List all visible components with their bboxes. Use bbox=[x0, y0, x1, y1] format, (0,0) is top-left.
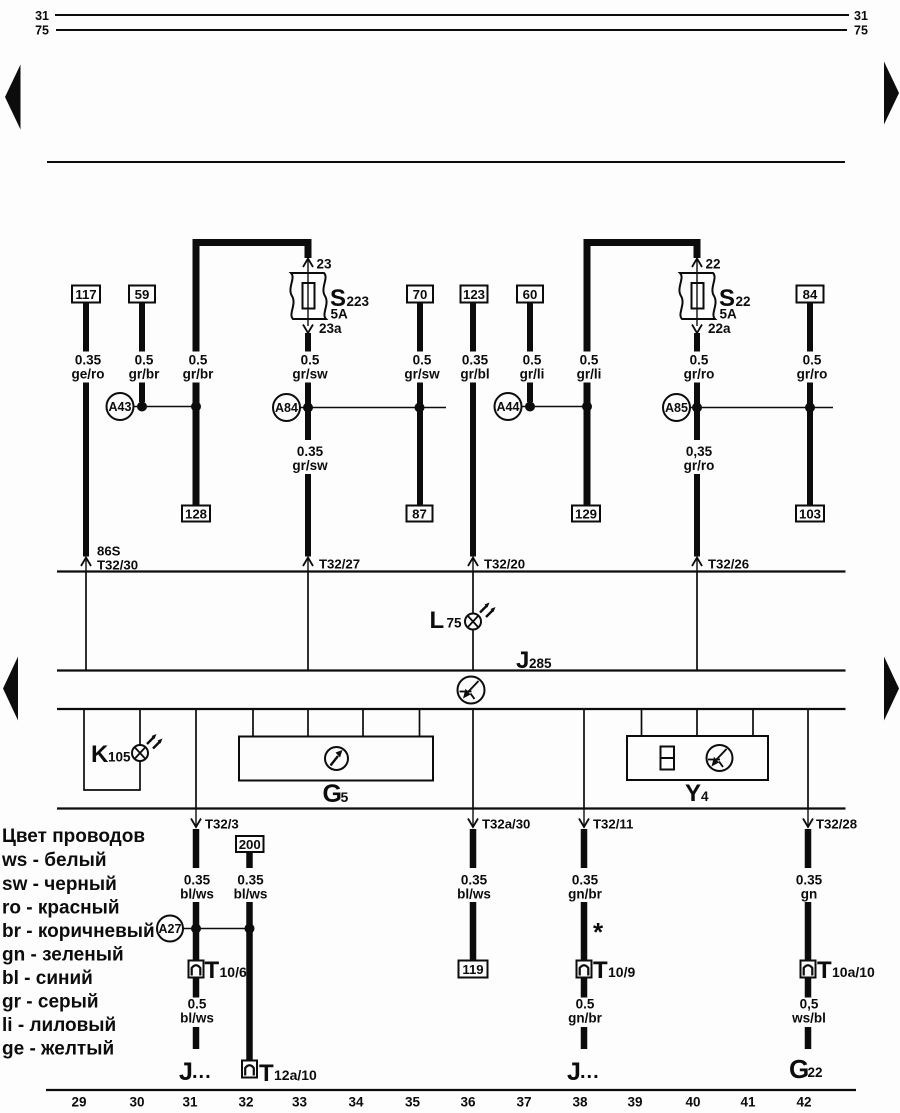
svg-text:T32/3: T32/3 bbox=[205, 817, 239, 832]
junction 84/A85 bbox=[805, 403, 815, 413]
wire T32/20 to L75 bbox=[472, 572, 474, 614]
wire gn column 42 middle bbox=[805, 902, 812, 961]
svg-text:bl/ws: bl/ws bbox=[180, 1011, 214, 1026]
svg-text:gr/ro: gr/ro bbox=[797, 367, 828, 382]
lamp K105 designator bbox=[91, 741, 131, 768]
svg-text:0,5: 0,5 bbox=[800, 997, 819, 1012]
svg-text:35: 35 bbox=[405, 1095, 421, 1110]
wire to J (31) bbox=[193, 1027, 200, 1049]
wire Y4 stub 3 bbox=[752, 709, 754, 736]
svg-text:0.5: 0.5 bbox=[690, 353, 709, 368]
svg-text:0.35: 0.35 bbox=[297, 444, 324, 459]
svg-text:...: ... bbox=[580, 1061, 600, 1083]
svg-text:0.35: 0.35 bbox=[184, 873, 211, 888]
svg-text:gr/ro: gr/ro bbox=[684, 458, 715, 473]
pin arrow T32/27 bbox=[303, 557, 360, 572]
wire gr/sw to T32/27 bbox=[305, 474, 311, 557]
svg-text:A44: A44 bbox=[497, 400, 520, 414]
wire label 0.5 gr/br (59) bbox=[129, 353, 160, 382]
svg-text:0.35: 0.35 bbox=[461, 873, 488, 888]
svg-text:285: 285 bbox=[529, 656, 552, 671]
wire label 0.5 gn/br bbox=[568, 997, 602, 1026]
wire top bar left (gr/br feed) bbox=[196, 243, 308, 352]
svg-text:ws/bl: ws/bl bbox=[791, 1011, 826, 1026]
wire 84 lower to 103 bbox=[807, 383, 813, 506]
wire label 0.35 ge/ro bbox=[71, 353, 104, 382]
svg-text:123: 123 bbox=[463, 287, 485, 302]
wire 59 upper bbox=[139, 303, 145, 352]
svg-text:86S: 86S bbox=[97, 544, 121, 559]
wire G5 stub 1 bbox=[252, 709, 254, 737]
wire 123 lower to T32/20 bbox=[470, 383, 476, 557]
svg-text:60: 60 bbox=[523, 287, 538, 302]
svg-text:gr/li: gr/li bbox=[577, 367, 602, 382]
svg-text:Цвет проводов: Цвет проводов bbox=[2, 826, 145, 847]
svg-text:ge - желтый: ge - желтый bbox=[2, 1039, 114, 1060]
junction 60/A44 bbox=[525, 402, 535, 412]
svg-text:23a: 23a bbox=[319, 321, 342, 336]
wire J285 to T32/11 bbox=[583, 709, 585, 808]
bus connector strip T32 bbox=[57, 570, 846, 572]
pin arrow T32/11 bbox=[579, 809, 633, 832]
wire T10/9 lower stub bbox=[581, 978, 588, 998]
wire A44 link bbox=[522, 406, 588, 408]
svg-text:T32/11: T32/11 bbox=[593, 817, 633, 832]
svg-text:0.35: 0.35 bbox=[462, 353, 489, 368]
svg-text:5: 5 bbox=[341, 789, 349, 805]
terminal 200 bbox=[236, 836, 264, 852]
svg-text:22: 22 bbox=[808, 1065, 823, 1080]
fuse S223 designator bbox=[330, 285, 370, 312]
wire A43 link bbox=[134, 406, 197, 408]
svg-text:200: 200 bbox=[239, 837, 261, 852]
wire 59 lower bbox=[139, 383, 145, 403]
svg-text:T32/20: T32/20 bbox=[484, 557, 525, 572]
svg-text:G: G bbox=[323, 780, 342, 808]
svg-text:T: T bbox=[205, 957, 220, 984]
svg-text:29: 29 bbox=[71, 1095, 86, 1110]
bus lower rail bbox=[57, 807, 846, 809]
junction 59/A43 bbox=[137, 402, 147, 412]
svg-text:gr/sw: gr/sw bbox=[404, 367, 440, 382]
svg-text:T32/30: T32/30 bbox=[97, 558, 138, 573]
svg-text:30: 30 bbox=[129, 1095, 144, 1110]
wire T32/26 to J285 bbox=[696, 572, 698, 672]
svg-text:bl - синий: bl - синий bbox=[2, 968, 93, 989]
lamp K105 bbox=[132, 734, 163, 761]
pin arrow T32a/30 bbox=[468, 809, 530, 832]
wire gn column 42 upper bbox=[805, 829, 812, 868]
track numbers bbox=[71, 1095, 811, 1110]
svg-text:75: 75 bbox=[35, 24, 49, 38]
svg-text:22: 22 bbox=[736, 294, 751, 309]
wire T10/6 lower stub bbox=[193, 978, 200, 998]
designator J... (38) bbox=[567, 1058, 600, 1086]
svg-text:4: 4 bbox=[701, 789, 709, 804]
sender G22 designator bbox=[789, 1054, 823, 1084]
svg-text:37: 37 bbox=[516, 1095, 531, 1110]
wire label 0.5 gr/sw (fuse S223) bbox=[292, 353, 328, 382]
svg-text:129: 129 bbox=[575, 507, 597, 522]
wire bl/ws column 36 upper bbox=[470, 829, 477, 868]
svg-text:40: 40 bbox=[685, 1095, 700, 1110]
wire label 0.5 gr/ro (fuse S22) bbox=[684, 353, 715, 382]
svg-text:gr/sw: gr/sw bbox=[292, 367, 328, 382]
wire T32/30 to J285 bbox=[85, 572, 87, 672]
connector T10/9 bbox=[577, 957, 636, 984]
connector A27 bbox=[157, 916, 183, 942]
svg-text:38: 38 bbox=[572, 1095, 588, 1110]
svg-text:J: J bbox=[179, 1058, 193, 1086]
control unit J285 instrument cluster bbox=[57, 671, 846, 710]
svg-text:0.35: 0.35 bbox=[572, 873, 599, 888]
terminal 129 bbox=[572, 506, 600, 522]
wire top bar right (gr/li feed) bbox=[587, 243, 697, 352]
svg-text:gn/br: gn/br bbox=[568, 887, 602, 902]
wire G5 stub 4 bbox=[419, 709, 421, 737]
wire label 0,5 ws/bl bbox=[791, 997, 826, 1026]
wire fuse S223 output bbox=[305, 333, 311, 352]
wire gr/br to 128 bbox=[193, 383, 200, 506]
junction gr-br/A43 bbox=[191, 402, 201, 412]
svg-text:22: 22 bbox=[706, 257, 721, 272]
svg-text:bl/ws: bl/ws bbox=[457, 887, 491, 902]
svg-text:J: J bbox=[567, 1058, 581, 1086]
connector A43 bbox=[107, 393, 134, 420]
svg-text:gn/br: gn/br bbox=[568, 1011, 602, 1026]
svg-text:31: 31 bbox=[854, 9, 868, 23]
svg-text:0.35: 0.35 bbox=[237, 873, 264, 888]
svg-text:39: 39 bbox=[627, 1095, 642, 1110]
wire A84 link bbox=[300, 407, 446, 409]
svg-text:22a: 22a bbox=[708, 321, 731, 336]
pin arrow T32/30 bbox=[81, 544, 138, 573]
separator line bbox=[47, 161, 845, 163]
svg-text:12a/10: 12a/10 bbox=[274, 1067, 317, 1083]
wire gr/ro fuse to A85 bbox=[694, 383, 700, 441]
svg-text:gr/ro: gr/ro bbox=[684, 367, 715, 382]
svg-text:T32a/30: T32a/30 bbox=[482, 817, 530, 832]
connector T10/6 bbox=[189, 957, 247, 984]
svg-text:0.35: 0.35 bbox=[75, 353, 102, 368]
wire A85 link bbox=[690, 407, 833, 409]
fuse S223 pin 23a arrow bbox=[303, 319, 342, 336]
svg-text:0.5: 0.5 bbox=[301, 353, 320, 368]
svg-text:ge/ro: ge/ro bbox=[71, 367, 104, 382]
designator J... (31) bbox=[179, 1058, 212, 1086]
legend wire colours bbox=[1, 826, 155, 1060]
fuse S22 pin 22a arrow bbox=[692, 319, 731, 336]
svg-text:A27: A27 bbox=[159, 922, 182, 936]
terminal 70 bbox=[407, 286, 433, 303]
terminal 128 bbox=[182, 506, 210, 522]
connector A44 bbox=[495, 393, 522, 420]
terminal 87 bbox=[407, 506, 433, 522]
pin arrow T32/26 bbox=[692, 557, 749, 572]
svg-text:59: 59 bbox=[135, 287, 150, 302]
svg-text:T: T bbox=[817, 957, 832, 984]
wire label 0.35 bl/ws (36) bbox=[457, 873, 491, 902]
wire 70 upper bbox=[417, 303, 423, 352]
svg-text:bl/ws: bl/ws bbox=[180, 887, 214, 902]
svg-text:T32/27: T32/27 bbox=[319, 557, 360, 572]
wire 117 lower to T32/30 bbox=[83, 383, 89, 557]
wire 60 upper bbox=[527, 303, 533, 352]
wire label 0.5 gr/sw (70) bbox=[404, 353, 440, 382]
svg-text:103: 103 bbox=[799, 507, 821, 522]
wire J285 to T32/28 bbox=[807, 709, 809, 808]
clock Y4 bbox=[627, 736, 768, 780]
wire 123 upper bbox=[470, 303, 476, 352]
terminal 59 bbox=[129, 286, 155, 303]
svg-text:128: 128 bbox=[185, 507, 207, 522]
pin arrow T32/3 bbox=[191, 809, 239, 832]
svg-text:gr - серый: gr - серый bbox=[2, 992, 99, 1013]
wire T32/27 to J285 bbox=[307, 572, 309, 672]
fuse S223 bbox=[290, 273, 326, 319]
svg-text:0,35: 0,35 bbox=[686, 444, 713, 459]
wire label 0.5 bl/ws bbox=[180, 997, 214, 1026]
svg-text:41: 41 bbox=[740, 1095, 756, 1110]
junction gr-ro/A85 bbox=[692, 403, 702, 413]
svg-text:T: T bbox=[259, 1060, 274, 1087]
svg-text:...: ... bbox=[192, 1061, 212, 1083]
continuation arrow middle-left bbox=[3, 657, 18, 721]
svg-text:31: 31 bbox=[35, 9, 49, 23]
svg-text:10/9: 10/9 bbox=[608, 964, 635, 980]
svg-text:li - лиловый: li - лиловый bbox=[2, 1015, 116, 1036]
wire T10a/10 lower stub bbox=[805, 978, 812, 998]
svg-text:A85: A85 bbox=[665, 401, 688, 415]
wire rail 31 bbox=[55, 14, 849, 16]
wire label 0.35 gr/sw bbox=[292, 444, 328, 473]
wire 60 lower bbox=[527, 383, 533, 403]
continuation arrow middle-right bbox=[884, 657, 899, 721]
terminal 119 bbox=[459, 961, 488, 978]
wire gn/br column 38 middle bbox=[581, 902, 588, 961]
svg-text:0.5: 0.5 bbox=[189, 353, 208, 368]
wire bl/ws column 36 lower bbox=[470, 902, 477, 961]
fuse S22 designator bbox=[719, 285, 751, 312]
terminal 117 bbox=[72, 286, 100, 303]
svg-text:0.5: 0.5 bbox=[135, 353, 154, 368]
wire bl/ws column 32 lower bbox=[246, 902, 253, 1061]
wire Y4 stub 1 bbox=[641, 709, 643, 736]
wire label 0.5 gr/li (bar) bbox=[577, 353, 602, 382]
svg-text:10a/10: 10a/10 bbox=[832, 964, 875, 980]
svg-text:0.5: 0.5 bbox=[803, 353, 822, 368]
svg-text:23: 23 bbox=[317, 257, 333, 272]
wire 70 lower to 87 bbox=[417, 383, 423, 506]
wire label 0.5 gr/br (bar) bbox=[183, 353, 214, 382]
wire G5 stub 2 bbox=[307, 709, 309, 737]
continuation arrow top-right bbox=[884, 62, 899, 125]
svg-text:117: 117 bbox=[75, 287, 96, 302]
connector T10a/10 bbox=[801, 957, 876, 984]
svg-text:L: L bbox=[430, 607, 445, 634]
wire K105 branch bbox=[84, 709, 140, 790]
svg-text:87: 87 bbox=[412, 507, 427, 522]
svg-text:gn - зеленый: gn - зеленый bbox=[2, 945, 124, 966]
control unit J285 designator bbox=[516, 647, 552, 674]
svg-text:br - коричневый: br - коричневый bbox=[2, 921, 155, 942]
svg-text:A43: A43 bbox=[109, 400, 132, 414]
wire to G22 bbox=[805, 1027, 812, 1049]
junction 70/A84 bbox=[415, 403, 425, 413]
svg-text:70: 70 bbox=[413, 287, 428, 302]
svg-text:gr/li: gr/li bbox=[520, 367, 545, 382]
svg-text:0.5: 0.5 bbox=[413, 353, 432, 368]
gauge G5 designator bbox=[323, 780, 349, 808]
continuation arrow top-left bbox=[5, 65, 21, 130]
svg-text:K: K bbox=[91, 741, 109, 768]
svg-text:84: 84 bbox=[803, 287, 818, 302]
svg-text:5A: 5A bbox=[331, 307, 349, 322]
svg-text:T: T bbox=[593, 957, 608, 984]
wire Y4 stub 2 bbox=[696, 709, 698, 736]
svg-text:G: G bbox=[789, 1054, 809, 1084]
connector A85 bbox=[663, 394, 690, 421]
fuse S223 pin 23 arrow bbox=[303, 257, 332, 274]
svg-text:bl/ws: bl/ws bbox=[234, 887, 268, 902]
junction gr-sw/A84 bbox=[303, 403, 313, 413]
pin arrow T32/28 bbox=[803, 809, 857, 832]
svg-text:0.5: 0.5 bbox=[576, 997, 595, 1012]
wire to J (38) bbox=[581, 1027, 588, 1049]
lamp L75 designator bbox=[430, 607, 463, 634]
illumination regulator symbol in J285 bbox=[458, 677, 485, 704]
svg-text:ws - белый: ws - белый bbox=[1, 850, 107, 871]
junction 31/A27 bbox=[191, 924, 201, 934]
svg-text:gr/bl: gr/bl bbox=[460, 367, 489, 382]
svg-text:0.5: 0.5 bbox=[188, 997, 207, 1012]
svg-text:*: * bbox=[593, 917, 604, 947]
terminal 123 bbox=[461, 286, 488, 303]
svg-text:ro - красный: ro - красный bbox=[2, 898, 120, 919]
svg-text:33: 33 bbox=[292, 1095, 308, 1110]
terminal 103 bbox=[796, 506, 824, 522]
svg-text:gr/br: gr/br bbox=[183, 367, 214, 382]
svg-text:75: 75 bbox=[854, 24, 868, 38]
svg-text:5A: 5A bbox=[720, 307, 738, 322]
svg-text:32: 32 bbox=[238, 1095, 253, 1110]
lamp L75 bbox=[465, 603, 496, 630]
wire label 0.5 gr/ro (84) bbox=[797, 353, 828, 382]
svg-text:0.35: 0.35 bbox=[796, 873, 823, 888]
svg-text:31: 31 bbox=[182, 1095, 198, 1110]
connector A84 bbox=[273, 394, 300, 421]
wire L75 to J285 bbox=[472, 630, 474, 672]
wire bl/ws column 31 middle bbox=[193, 902, 200, 961]
wire label 0.35 gn bbox=[796, 873, 823, 902]
svg-text:105: 105 bbox=[108, 750, 131, 765]
wire label 0,35 gr/ro bbox=[684, 444, 715, 473]
wire label 0.35 bl/ws (32) bbox=[234, 873, 268, 902]
wire bl/ws column 32 upper bbox=[246, 852, 253, 868]
wire label 0.35 gr/bl bbox=[460, 353, 489, 382]
wire gr/sw fuse to A84 bbox=[305, 383, 311, 441]
fuse S22 pin 22 arrow bbox=[692, 257, 721, 274]
wire 84 upper bbox=[807, 303, 813, 352]
wire gr/ro to T32/26 bbox=[694, 474, 700, 557]
wire J285 to T32a/30 bbox=[472, 709, 474, 808]
wire label 0.35 gn/br bbox=[568, 873, 602, 902]
track ruler bbox=[46, 1089, 856, 1091]
svg-text:42: 42 bbox=[796, 1095, 811, 1110]
svg-text:119: 119 bbox=[462, 962, 483, 977]
svg-text:A84: A84 bbox=[275, 401, 298, 415]
svg-text:0.5: 0.5 bbox=[523, 353, 542, 368]
connector T12a/10 bbox=[242, 1060, 317, 1087]
terminal 60 bbox=[517, 286, 543, 303]
pin arrow T32/20 bbox=[468, 557, 525, 572]
svg-text:10/6: 10/6 bbox=[220, 964, 247, 980]
wire label 0.35 bl/ws (31) bbox=[180, 873, 214, 902]
svg-text:36: 36 bbox=[460, 1095, 476, 1110]
svg-text:gr/sw: gr/sw bbox=[292, 458, 328, 473]
wire fuse S22 output bbox=[694, 333, 700, 352]
junction 32/A27 bbox=[245, 924, 255, 934]
wire gn/br column 38 upper bbox=[581, 829, 588, 868]
svg-text:223: 223 bbox=[347, 294, 370, 309]
wire rail 75 bbox=[56, 29, 847, 31]
fuse S22 bbox=[679, 273, 715, 319]
wire label 0.5 gr/li (60) bbox=[520, 353, 545, 382]
clock Y4 designator bbox=[685, 780, 709, 807]
svg-text:T32/28: T32/28 bbox=[816, 817, 857, 832]
terminal 84 bbox=[797, 286, 824, 303]
svg-text:gr/br: gr/br bbox=[129, 367, 160, 382]
wire G5 stub 3 bbox=[362, 709, 364, 737]
wire gr/li to 129 bbox=[584, 383, 591, 506]
svg-text:34: 34 bbox=[348, 1095, 364, 1110]
svg-text:0.5: 0.5 bbox=[580, 353, 599, 368]
junction gr-li/A44 bbox=[582, 402, 592, 412]
wire J285 to T32/3 bbox=[195, 709, 197, 808]
gauge G5 bbox=[239, 737, 433, 781]
wire bl/ws column 31 upper bbox=[193, 829, 200, 868]
svg-text:Y: Y bbox=[685, 780, 701, 807]
svg-text:75: 75 bbox=[447, 616, 463, 631]
wire 117 upper bbox=[83, 303, 89, 352]
svg-text:sw - черный: sw - черный bbox=[2, 874, 117, 895]
svg-text:T32/26: T32/26 bbox=[708, 557, 749, 572]
svg-text:gn: gn bbox=[801, 887, 818, 902]
wire A27 link bbox=[183, 928, 250, 930]
